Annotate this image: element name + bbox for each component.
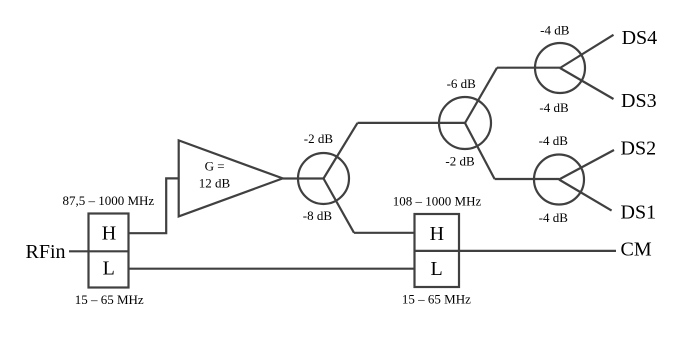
svg-text:L: L: [103, 258, 115, 280]
svg-text:-4 dB: -4 dB: [539, 100, 569, 115]
svg-text:G =: G =: [205, 158, 225, 173]
svg-text:-2 dB: -2 dB: [304, 131, 334, 146]
svg-text:H: H: [430, 223, 444, 245]
svg-text:12 dB: 12 dB: [199, 176, 231, 191]
svg-text:DS2: DS2: [621, 138, 657, 160]
svg-text:CM: CM: [621, 239, 652, 261]
svg-text:-4 dB: -4 dB: [539, 133, 569, 148]
svg-text:DS4: DS4: [622, 27, 658, 49]
svg-text:RFin: RFin: [26, 241, 66, 263]
svg-text:-8 dB: -8 dB: [303, 208, 333, 223]
svg-text:15 – 65 MHz: 15 – 65 MHz: [75, 292, 144, 307]
svg-text:-4 dB: -4 dB: [540, 23, 570, 38]
svg-text:-2 dB: -2 dB: [445, 154, 475, 169]
svg-text:108 – 1000 MHz: 108 – 1000 MHz: [393, 194, 482, 209]
svg-text:-4 dB: -4 dB: [539, 210, 569, 225]
svg-text:DS3: DS3: [621, 90, 657, 112]
svg-text:-6 dB: -6 dB: [447, 76, 477, 91]
svg-text:H: H: [102, 223, 116, 245]
svg-text:DS1: DS1: [621, 202, 657, 224]
svg-text:87,5 – 1000 MHz: 87,5 – 1000 MHz: [62, 193, 154, 208]
svg-text:15 – 65 MHz: 15 – 65 MHz: [402, 292, 471, 307]
svg-text:L: L: [430, 258, 442, 280]
